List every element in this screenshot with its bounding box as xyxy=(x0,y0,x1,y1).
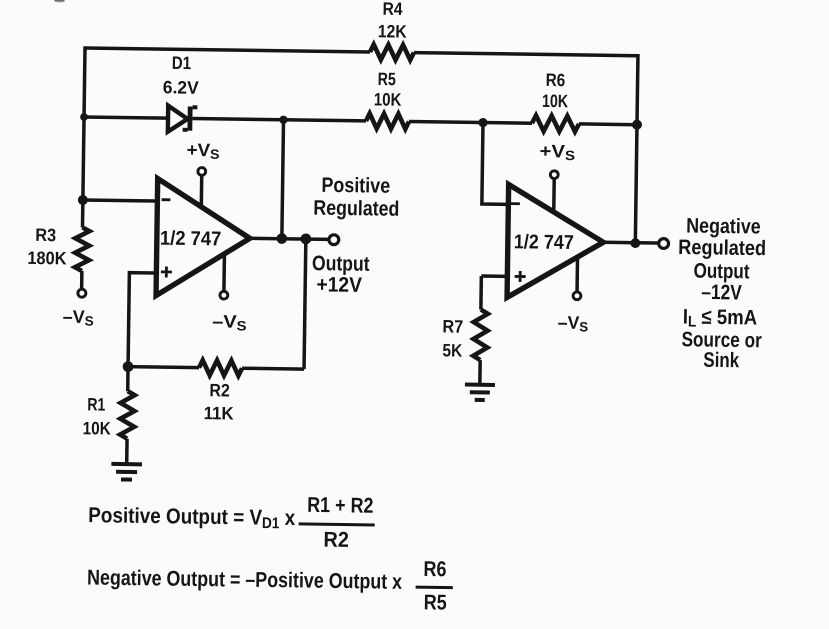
svg-text:R4: R4 xyxy=(382,0,402,19)
svg-text:1/2 747: 1/2 747 xyxy=(514,231,574,254)
svg-text:–12V: –12V xyxy=(701,281,742,305)
svg-text:Negative: Negative xyxy=(686,215,761,239)
svg-text:Output: Output xyxy=(693,260,749,284)
svg-text:Positive: Positive xyxy=(321,174,390,198)
svg-text:Negative Output = –Positive Ou: Negative Output = –Positive Output x xyxy=(87,565,402,593)
svg-text:Regulated: Regulated xyxy=(678,236,766,260)
svg-text:R1: R1 xyxy=(87,394,105,414)
svg-text:180K: 180K xyxy=(27,248,66,269)
svg-text:R2: R2 xyxy=(323,528,349,552)
svg-text:Regulated: Regulated xyxy=(313,197,399,221)
svg-text:10K: 10K xyxy=(83,418,111,438)
svg-text:5K: 5K xyxy=(442,340,462,360)
svg-text:R2: R2 xyxy=(209,380,230,400)
svg-text:1/2 747: 1/2 747 xyxy=(160,228,222,251)
svg-text:R3: R3 xyxy=(35,225,56,245)
svg-text:Sink: Sink xyxy=(703,349,739,373)
svg-text:R6: R6 xyxy=(546,70,566,90)
svg-text:10K: 10K xyxy=(542,91,568,111)
svg-text:Output: Output xyxy=(312,252,370,276)
svg-text:11K: 11K xyxy=(204,403,234,423)
svg-text:D1: D1 xyxy=(172,53,191,73)
svg-text:R5: R5 xyxy=(424,590,447,614)
svg-text:+12V: +12V xyxy=(316,273,362,297)
svg-text:6.2V: 6.2V xyxy=(163,77,199,97)
svg-text:12K: 12K xyxy=(378,21,407,41)
svg-text:R6: R6 xyxy=(423,557,446,581)
svg-text:R7: R7 xyxy=(442,316,463,336)
svg-text:R5: R5 xyxy=(378,69,396,89)
svg-text:10K: 10K xyxy=(374,89,402,109)
svg-text:R1 + R2: R1 + R2 xyxy=(307,493,374,518)
